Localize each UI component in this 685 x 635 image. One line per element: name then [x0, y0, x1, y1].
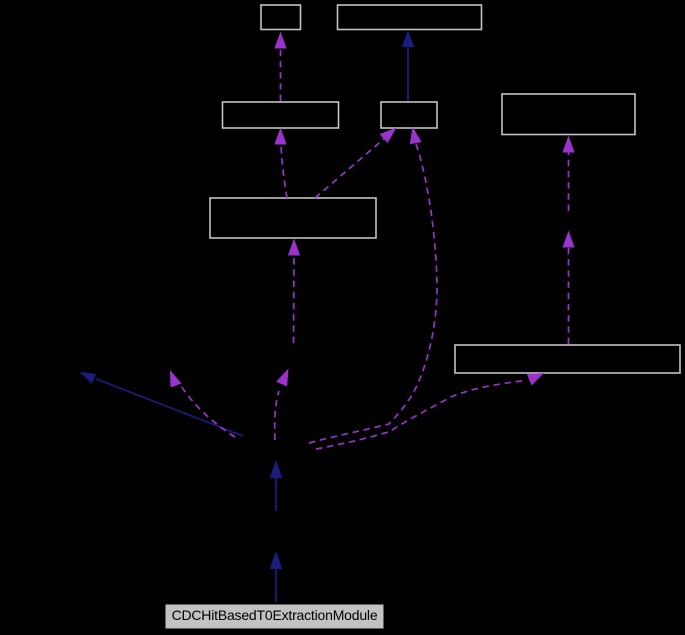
- node N4 (second row small box): [381, 102, 437, 128]
- node N2 (top wide box): [338, 5, 482, 30]
- edge P9 (purple dashed arrow mid-row node to N6): [288, 239, 300, 344]
- node N1 (top small box): [261, 5, 301, 30]
- edge P5 (purple dashed curve from center node to N7): [316, 373, 544, 449]
- edge P6 (purple dashed curve from center node up-left): [170, 370, 235, 437]
- edge P4 (purple dashed long curve from center node to N4): [309, 127, 437, 444]
- edge P3 (purple dashed diagonal arrow N6 to N4): [315, 128, 397, 199]
- edge P2 (purple dashed arrow N6 to N3): [274, 128, 287, 199]
- edge B4 (blue solid arrow from bottom box to lower node): [270, 551, 283, 602]
- node N8 (bottom gray box CDCHitBasedT0ExtractionModule): [166, 605, 383, 628]
- edge B3 (blue solid arrow lower node to center node): [270, 460, 283, 511]
- svg-text:CDCHitBasedT0ExtractionModule: CDCHitBasedT0ExtractionModule: [172, 607, 378, 623]
- node N7 (right middle box): [455, 345, 680, 373]
- node N3 (second row left box): [223, 102, 339, 128]
- edge P8a (purple dashed arrow mid node to N5): [562, 136, 574, 212]
- edge B1 (blue solid arrow N4 to N2): [402, 30, 414, 101]
- edge B2 (blue solid arrow from center node to upper left): [79, 372, 243, 436]
- node N5 (second row right tall box): [502, 94, 635, 135]
- node N6 (third row box): [210, 198, 376, 238]
- edge P1 (purple dashed arrow N3 to N1): [274, 32, 286, 102]
- edge P7 (purple dashed short arrow from center node up): [275, 369, 289, 441]
- edge P8b (purple dashed arrow N7 to mid node): [562, 231, 574, 345]
